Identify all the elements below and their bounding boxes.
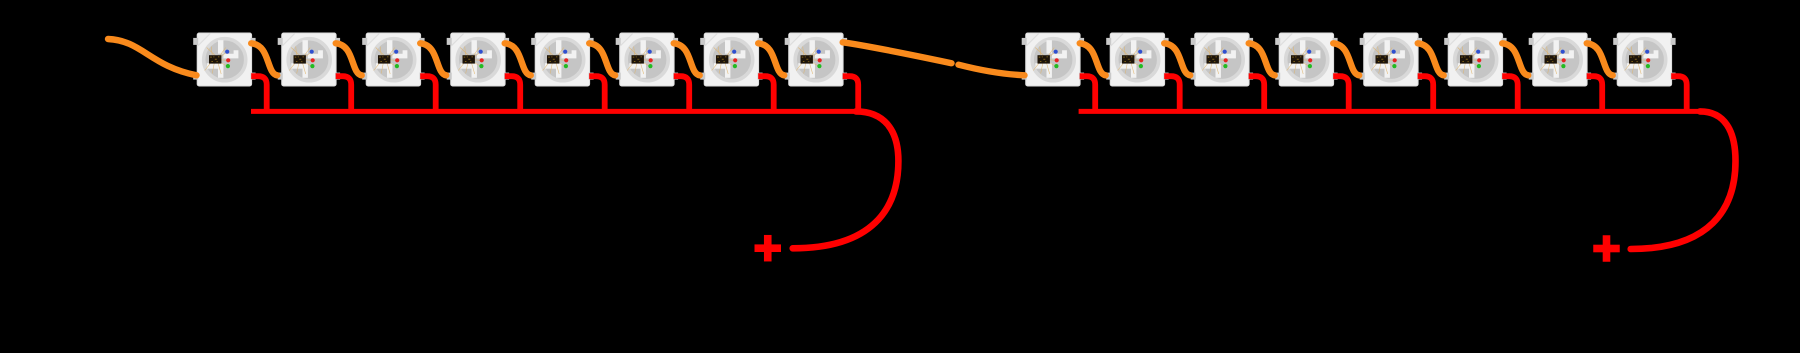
wire: power drop from LED12 to bus <box>1333 76 1349 113</box>
wire: data LED13 DOUT to LED14 DIN <box>1418 43 1444 75</box>
wire: data LED4 DOUT to LED5 DIN <box>505 43 531 75</box>
wire: data into LED9 DIN (segment 2) <box>959 65 1025 76</box>
wire: power drop from LED13 to bus <box>1418 76 1434 113</box>
wire: power drop from LED1 to bus <box>251 76 267 113</box>
neopixel LED8 <box>785 33 847 86</box>
wire: data LED14 DOUT to LED15 DIN <box>1502 43 1528 75</box>
neopixel LED4 <box>447 33 509 86</box>
neopixel LED6 <box>616 33 678 86</box>
neopixel LED11 <box>1191 33 1253 86</box>
wire: data LED11 DOUT to LED12 DIN <box>1249 43 1275 75</box>
neopixel LED1 <box>193 33 255 86</box>
wire: power bus curve to + terminal (strip 1) <box>793 111 899 248</box>
wire: power drop from LED6 to bus <box>674 76 690 113</box>
neopixel LED7 <box>700 33 762 86</box>
neopixel LED9 <box>1022 33 1084 86</box>
neopixel LED13 <box>1360 33 1422 86</box>
wire: power drop from LED11 to bus <box>1249 76 1265 113</box>
wire: data LED6 DOUT to LED7 DIN <box>674 43 700 75</box>
neopixel LED2 <box>278 33 340 86</box>
wire: data LED1 DOUT to LED2 DIN <box>251 43 277 75</box>
wire: power bus curve to + terminal (strip 2) <box>1631 111 1736 249</box>
neopixel LED15 <box>1529 33 1591 86</box>
power + terminal (strip 1) <box>755 235 782 262</box>
wire: data LED2 DOUT to LED3 DIN <box>336 43 362 75</box>
wire: power drop from LED5 to bus <box>589 76 605 113</box>
wire: power drop from LED7 to bus <box>758 76 774 113</box>
wire: data LED15 DOUT to LED16 DIN <box>1587 43 1613 75</box>
wire: power bus strip 2 <box>1079 109 1704 114</box>
neopixel LED5 <box>531 33 593 86</box>
wire: power drop from LED4 to bus <box>505 76 521 113</box>
wire: power drop from LED8 to bus <box>843 76 859 113</box>
wire: power drop from LED9 to bus <box>1080 76 1096 113</box>
wire: power bus strip 1 <box>251 109 860 114</box>
neopixel LED16 <box>1613 33 1675 86</box>
wire: power drop from LED16 to bus <box>1671 76 1687 113</box>
wire: power drop from LED3 to bus <box>420 76 436 113</box>
wire: data LED5 DOUT to LED6 DIN <box>589 43 615 75</box>
wire: power drop from LED15 to bus <box>1587 76 1603 113</box>
wire: power drop from LED2 to bus <box>336 76 352 113</box>
wire: data LED9 DOUT to LED10 DIN <box>1080 43 1106 75</box>
power + terminal (strip 2) <box>1593 235 1620 262</box>
wire: data LED3 DOUT to LED4 DIN <box>420 43 446 75</box>
wire: data LED12 DOUT to LED13 DIN <box>1333 43 1359 75</box>
wire: data LED8 DOUT toward strip 2 (segment 1) <box>843 42 952 63</box>
neopixel LED10 <box>1106 33 1168 86</box>
wire: power drop from LED10 to bus <box>1164 76 1180 113</box>
wire: data LED7 DOUT to LED8 DIN <box>758 43 784 75</box>
neopixel LED12 <box>1275 33 1337 86</box>
neopixel LED3 <box>362 33 424 86</box>
wire: data input feed into LED1 DIN <box>108 39 197 75</box>
wire: data LED10 DOUT to LED11 DIN <box>1164 43 1190 75</box>
wire: power drop from LED14 to bus <box>1502 76 1518 113</box>
neopixel LED14 <box>1444 33 1506 86</box>
